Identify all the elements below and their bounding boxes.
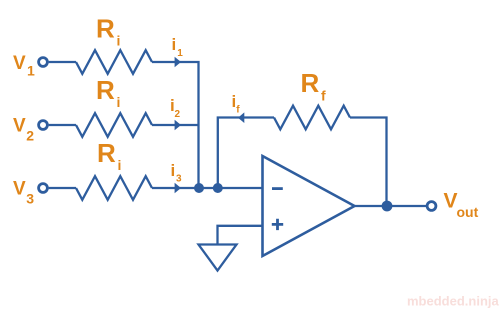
svg-text:1: 1	[177, 48, 183, 59]
svg-text:i: i	[118, 157, 122, 173]
svg-text:3: 3	[26, 191, 34, 207]
terminal Vout	[427, 202, 436, 211]
op-amp U1	[263, 156, 355, 256]
wire V2 input	[49, 124, 76, 126]
svg-text:2: 2	[26, 128, 34, 144]
svg-text:R: R	[301, 68, 320, 98]
svg-text:f: f	[321, 88, 326, 104]
svg-text:3: 3	[176, 173, 182, 184]
output node dot	[382, 201, 393, 212]
resistor R3 (Ri)	[76, 176, 152, 200]
op-amp minus sign	[272, 187, 283, 190]
svg-text:i: i	[171, 161, 176, 180]
wire V2 to node A	[152, 124, 199, 126]
op-amp plus sign	[272, 219, 283, 230]
wire feedback branch up	[218, 118, 274, 189]
wire feedback to output node	[350, 118, 387, 207]
svg-text:1: 1	[27, 63, 35, 79]
svg-text:mbedded.ninja: mbedded.ninja	[407, 294, 500, 309]
terminal V3	[39, 184, 48, 193]
svg-text:R: R	[97, 138, 116, 168]
arrow i2	[175, 120, 181, 131]
svg-text:V: V	[13, 116, 26, 137]
wire V3 input	[49, 187, 76, 189]
svg-text:V: V	[444, 189, 458, 212]
arrow i1	[175, 57, 181, 68]
resistor R1 (Ri)	[76, 50, 152, 74]
svg-text:out: out	[457, 204, 479, 220]
ground	[199, 245, 237, 271]
arrow if (points left)	[238, 112, 244, 123]
resistor R2 (Ri)	[76, 113, 152, 137]
wire non-inverting input to ground	[218, 226, 263, 244]
wire op-amp output	[355, 205, 428, 207]
svg-text:R: R	[96, 75, 115, 105]
svg-text:i: i	[172, 35, 177, 54]
terminal V2	[39, 121, 48, 130]
resistor Rf	[274, 106, 350, 130]
svg-text:i: i	[117, 33, 121, 49]
junction node A dot 1	[194, 183, 204, 193]
svg-text:f: f	[236, 104, 240, 115]
wire V3 to op-amp inverting input	[152, 187, 263, 189]
arrow i3	[175, 183, 181, 194]
svg-text:R: R	[96, 14, 115, 44]
junction node A dot 2	[213, 183, 223, 193]
wire V1 to node A	[152, 62, 199, 188]
svg-text:V: V	[13, 53, 26, 74]
svg-text:V: V	[13, 179, 26, 200]
terminal V1	[39, 58, 48, 67]
wire V1 input	[49, 61, 76, 63]
svg-text:2: 2	[175, 109, 181, 120]
svg-text:i: i	[117, 94, 121, 110]
